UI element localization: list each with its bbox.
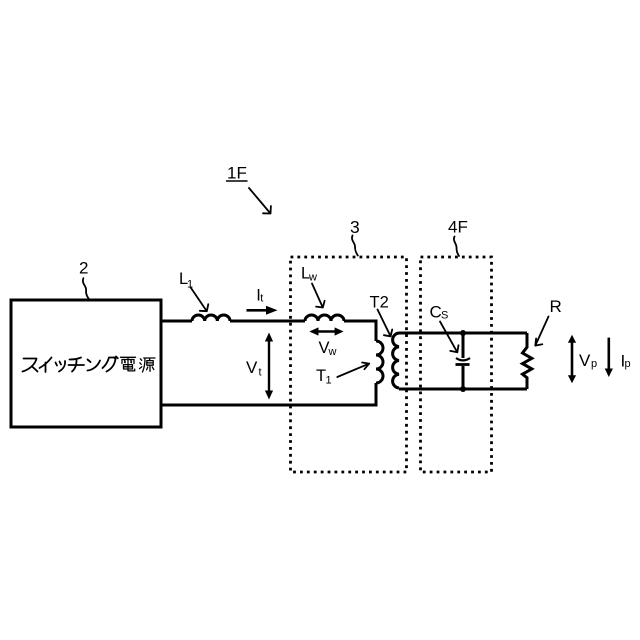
svg-text:2: 2 — [79, 259, 88, 278]
svg-text:R: R — [550, 297, 562, 316]
svg-text:1: 1 — [326, 375, 332, 387]
svg-text:p: p — [625, 358, 631, 370]
svg-text:V: V — [246, 358, 258, 377]
svg-text:T2: T2 — [370, 294, 389, 312]
svg-text:1F: 1F — [227, 164, 247, 183]
svg-text:C: C — [430, 303, 442, 322]
svg-text:w: w — [328, 346, 337, 358]
svg-text:1: 1 — [187, 279, 193, 291]
svg-text:p: p — [591, 358, 597, 370]
svg-text:t: t — [259, 366, 262, 378]
svg-text:S: S — [441, 309, 448, 321]
svg-text:4F: 4F — [448, 218, 468, 237]
svg-text:w: w — [308, 272, 317, 284]
svg-text:V: V — [579, 351, 591, 370]
svg-text:3: 3 — [350, 217, 360, 237]
svg-text:t: t — [260, 293, 263, 305]
